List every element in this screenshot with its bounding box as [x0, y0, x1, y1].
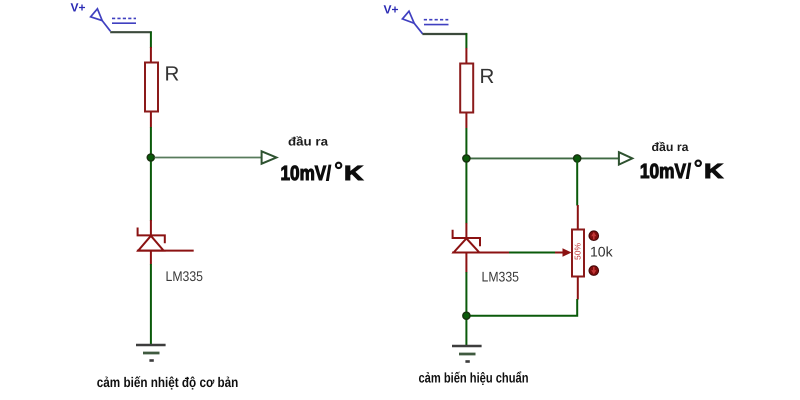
zener diode LM335 D1 (left) — [137, 220, 194, 265]
svg-text:10mV/: 10mV/ — [281, 162, 332, 185]
power symbol V+ (right) — [402, 11, 448, 34]
svg-text:K: K — [344, 162, 363, 185]
ground (right) — [452, 346, 482, 362]
svg-text:V+: V+ — [71, 0, 86, 14]
wire R to node (left) — [150, 127, 152, 158]
wire pot bottom to junction (right) — [466, 299, 577, 316]
power symbol V+ (left) — [91, 9, 136, 31]
svg-text:LM335: LM335 — [482, 269, 520, 285]
wire output horizontal (right) — [466, 157, 618, 159]
svg-text:cảm biến nhiệt độ cơ bản: cảm biến nhiệt độ cơ bản — [97, 374, 239, 390]
node ground junction (right) — [463, 312, 470, 319]
node output junction 2 (right) — [574, 155, 581, 162]
pot wiper arrow (right) — [555, 248, 572, 257]
output arrow (left) — [262, 151, 277, 163]
svg-text:R: R — [480, 65, 495, 88]
svg-text:10mV/: 10mV/ — [640, 160, 691, 183]
svg-text:cảm biến hiệu chuẩn: cảm biến hiệu chuẩn — [419, 370, 529, 386]
wire node down to D1 (left) — [150, 158, 152, 221]
resistor R (left) — [145, 47, 158, 128]
svg-text:V+: V+ — [384, 3, 399, 17]
svg-text:10k: 10k — [590, 244, 614, 260]
zener diode LM335 D2 (right) — [452, 223, 509, 273]
svg-text:R: R — [165, 63, 180, 86]
wire output (left) — [155, 157, 262, 159]
wire R to node (right) — [465, 128, 467, 159]
node output junction (left) — [147, 154, 154, 161]
pot decrement button (right) — [589, 266, 599, 276]
wire D2 to ground (right) — [465, 272, 467, 345]
wire V+ horizontal (right) — [422, 33, 467, 35]
label 10mV/°K (right) — [640, 160, 724, 183]
wire V+ down to R (right) — [465, 33, 467, 48]
svg-text:LM335: LM335 — [166, 268, 204, 284]
label 10mV/°K (left) — [281, 162, 364, 185]
wire D1 to ground (left) — [150, 264, 152, 345]
pot increment button (right) — [589, 231, 599, 241]
wire node down to D2 (right) — [465, 159, 467, 224]
svg-text:đầu ra: đầu ra — [288, 135, 328, 149]
wire V+ down to R (left) — [150, 32, 152, 49]
wire node2 down to pot (right) — [576, 159, 578, 206]
svg-text:K: K — [704, 160, 723, 183]
svg-text:đầu ra: đầu ra — [652, 140, 689, 154]
wire D2 adjust to pot wiper (right) — [509, 252, 556, 254]
svg-text:50%: 50% — [573, 243, 583, 260]
potentiometer RV1 10k (right) — [572, 205, 584, 300]
resistor R (right) — [460, 48, 473, 128]
wire V+ horizontal (left) — [110, 31, 152, 33]
ground (left) — [136, 345, 166, 361]
output arrow (right) — [619, 152, 632, 164]
node output junction 1 (right) — [463, 155, 470, 162]
